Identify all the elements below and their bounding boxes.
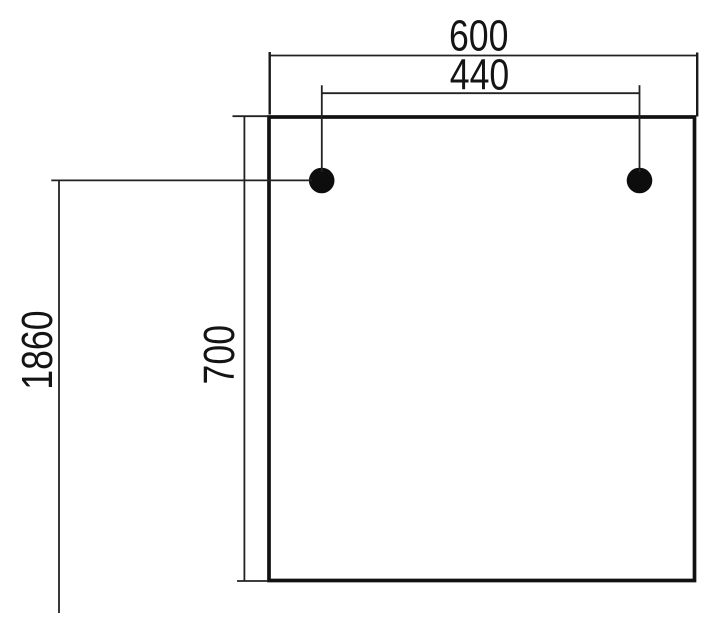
svg-text:700: 700 [196, 325, 244, 385]
svg-text:440: 440 [450, 51, 510, 99]
mounting hole right [627, 168, 653, 194]
extension line 1860 to left hole [51, 179, 312, 181]
mounting hole left [309, 168, 335, 194]
dimension line 440 [322, 92, 640, 94]
extension line 600 right [696, 53, 698, 117]
dimension line 600 [269, 55, 698, 57]
extension tick 700 top [233, 115, 269, 117]
extension line 600 left [269, 52, 271, 115]
svg-text:1860: 1860 [14, 310, 62, 389]
extension line 440 right [639, 85, 641, 172]
extension line 440 left [321, 85, 323, 172]
dimension line 700 [243, 116, 245, 582]
extension tick 700 bottom [237, 580, 268, 582]
mirror outline [269, 117, 695, 581]
dimension line 1860 [58, 180, 60, 614]
